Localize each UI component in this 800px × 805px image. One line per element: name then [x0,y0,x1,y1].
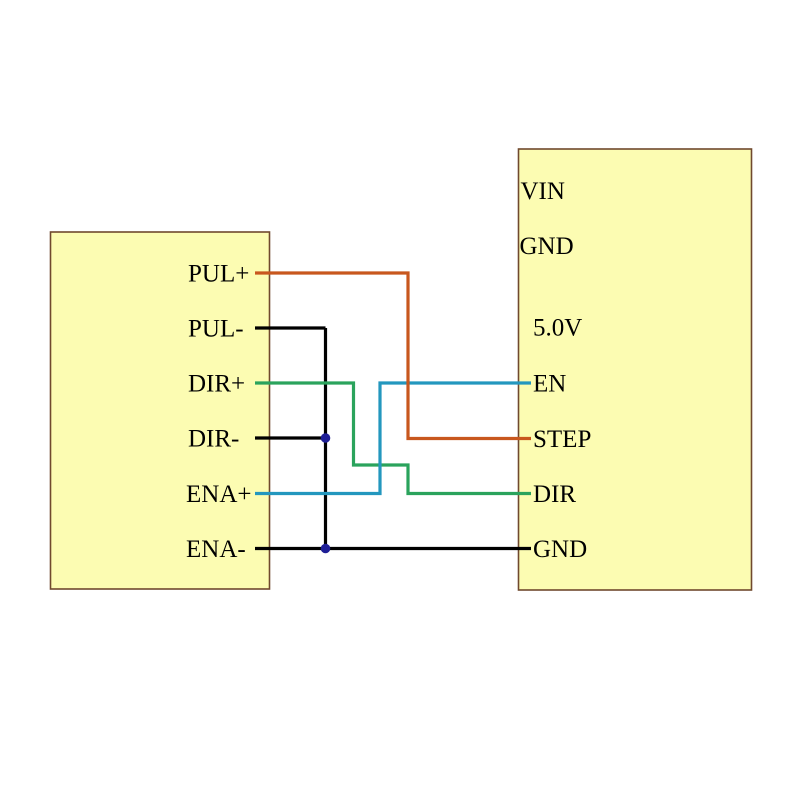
wire DIR+ to DIR (green) [255,383,531,494]
wire black common vertical (PUL-/DIR-/ENA- tie) [324,328,327,549]
svg-text:DIR+: DIR+ [188,370,245,397]
junction dot at ENA- tie [321,544,331,554]
wire PUL+ to STEP (orange) [255,273,531,439]
wire DIR- stub (black) [255,436,326,439]
wire ENA+ to EN (cyan) [255,383,531,494]
svg-text:ENA+: ENA+ [186,481,251,508]
wire ENA- to GND (black) [255,547,531,550]
controller box U2 [519,149,752,590]
svg-text:DIR: DIR [533,481,576,508]
svg-text:GND: GND [533,536,587,563]
junction dot at DIR- tie [321,433,331,443]
driver box U1 (stepper driver inputs) [51,232,270,589]
svg-text:VIN: VIN [521,178,565,205]
svg-text:5.0V: 5.0V [533,314,582,341]
svg-text:GND: GND [520,233,574,260]
svg-text:PUL+: PUL+ [188,260,249,287]
wire PUL- stub (black) [255,326,326,329]
svg-text:DIR-: DIR- [188,425,239,452]
svg-text:STEP: STEP [533,426,591,453]
svg-text:PUL-: PUL- [188,315,244,342]
svg-text:EN: EN [533,370,566,397]
svg-text:ENA-: ENA- [186,536,246,563]
